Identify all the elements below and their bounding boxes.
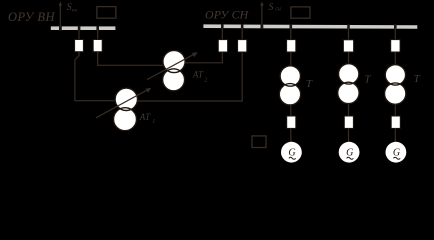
wire AT1 to SN breaker 2 (137, 52, 242, 101)
box (load) VN (97, 7, 116, 19)
svg-text:G: G (393, 148, 400, 159)
wire transformer to generator breaker 3 (394, 104, 396, 116)
wire S-arrow SN (261, 4, 263, 24)
node tap S-arrow SN (261, 24, 264, 29)
node tap SN breaker 2 (241, 24, 244, 29)
svg-text:Т: Т (414, 73, 421, 85)
node tap unit 3 (394, 24, 397, 29)
wire bus to unit breaker 2 (348, 28, 350, 40)
breaker unit 2 (343, 40, 353, 52)
svg-text:G: G (288, 148, 295, 159)
wire bus to SN breaker 2 (241, 28, 243, 39)
wire S-arrow VN (59, 4, 61, 26)
wire transformer to generator breaker 2 (348, 104, 350, 116)
generator G3 (386, 142, 407, 163)
wire breaker to transformer T1 (290, 52, 292, 67)
generator G1 (281, 142, 302, 163)
svg-text:2: 2 (204, 78, 207, 84)
svg-text:ОРУ ВН: ОРУ ВН (8, 10, 55, 24)
wire transformer to generator breaker 1 (290, 105, 292, 116)
breaker VN 2 (93, 40, 102, 52)
breaker SN 1 (218, 40, 227, 52)
wire bus to VN breaker 1 (78, 30, 80, 40)
wire breaker to generator 3 (394, 128, 396, 142)
wire bus to VN breaker 2 (97, 30, 99, 40)
svg-text:АТ: АТ (192, 70, 204, 80)
svg-text:Т: Т (364, 74, 371, 86)
breaker unit 3 (391, 40, 400, 52)
svg-text:ОРУ СН: ОРУ СН (205, 7, 250, 21)
arrow tap-changer AT2 (147, 54, 195, 80)
node tap VN breaker 2 (96, 26, 99, 31)
svg-text:Т: Т (306, 78, 313, 90)
transformer T3 (385, 65, 405, 85)
breaker VN 1 (75, 40, 84, 52)
arrow Sвн (59, 2, 63, 6)
wire breaker to generator 1 (290, 128, 292, 142)
svg-text:АТ: АТ (139, 112, 151, 122)
breaker generator 3 (391, 116, 400, 128)
wire AT2 to SN breaker 1 (185, 52, 223, 63)
wire breaker to transformer T2 (348, 52, 350, 65)
breaker generator 2 (344, 116, 353, 128)
box (load) SN (291, 7, 310, 18)
node tap S-arrow VN (59, 26, 62, 31)
breaker SN 2 (238, 40, 247, 52)
node tap unit 2 (347, 24, 350, 29)
autotransformer AT2 (163, 50, 185, 90)
wire bus to unit breaker 3 (394, 28, 396, 39)
unit 1 (279, 28, 313, 162)
wire breaker to generator 2 (348, 128, 350, 142)
svg-text:сн: сн (275, 7, 281, 13)
arrow tap-changer AT1 (96, 89, 149, 118)
breaker generator 1 (287, 116, 296, 128)
generator G2 (339, 142, 360, 163)
busbar ОРУ ВН (51, 26, 116, 30)
svg-text:S: S (67, 2, 72, 13)
node tap VN breaker 1 (78, 26, 81, 31)
autotransformer AT1 (114, 88, 138, 131)
arrow Sсн (260, 2, 264, 6)
wire breaker to transformer T3 (394, 52, 396, 66)
wire VN breaker 1 to AT1 (75, 52, 116, 101)
svg-text:вн: вн (72, 8, 77, 14)
breaker unit 1 (287, 40, 296, 52)
transformer T2 (339, 64, 359, 84)
node tap SN breaker 1 (221, 24, 224, 29)
unit 2 (338, 28, 372, 162)
busbar ОРУ СН (203, 24, 417, 28)
wire VN breaker 2 to AT2 (98, 52, 164, 66)
svg-text:G: G (346, 148, 353, 159)
svg-text:S: S (269, 2, 274, 13)
node tap unit 1 (290, 24, 293, 29)
wire bus to SN breaker 1 (221, 28, 223, 39)
svg-text:1: 1 (152, 119, 155, 125)
wire bus to unit breaker 1 (290, 28, 292, 39)
legend box (bottom) (252, 136, 266, 148)
transformer T1 (280, 66, 300, 86)
unit 3 (385, 28, 421, 162)
